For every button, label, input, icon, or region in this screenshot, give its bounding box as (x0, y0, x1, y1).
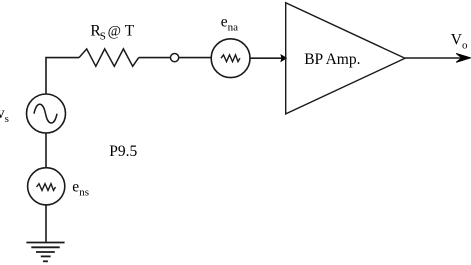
noise source e_ns (28, 168, 65, 205)
wire: v_s to e_ns (45, 133, 47, 168)
svg-text:ena: ena (221, 13, 238, 33)
wire: amplifier output with arrowhead (405, 57, 462, 59)
svg-text:BP Amp.: BP Amp. (304, 51, 360, 68)
wire: v_s top to corner and across to resistor (46, 58, 79, 94)
arrowhead at amplifier input (281, 55, 286, 61)
svg-text:vs: vs (0, 105, 9, 125)
arrowhead at output V_o (456, 54, 470, 63)
ground (26, 243, 64, 262)
wire: node to noise source e_na (179, 57, 212, 59)
wire: e_na to amplifier input with arrowhead (250, 57, 283, 59)
svg-text:ens: ens (72, 179, 89, 199)
wire: e_ns to ground (45, 205, 47, 243)
svg-text:RS@T: RS@T (90, 23, 134, 43)
op-amp U1 BP Amp triangle (286, 3, 405, 114)
node: open terminal circle (171, 54, 179, 62)
noise source e_na (211, 39, 250, 78)
svg-text:P9.5: P9.5 (109, 143, 137, 160)
source v_s (sine) (27, 94, 66, 133)
resistor RS (79, 49, 139, 66)
wire: resistor to node (139, 57, 171, 59)
svg-text:Vo: Vo (451, 32, 468, 52)
